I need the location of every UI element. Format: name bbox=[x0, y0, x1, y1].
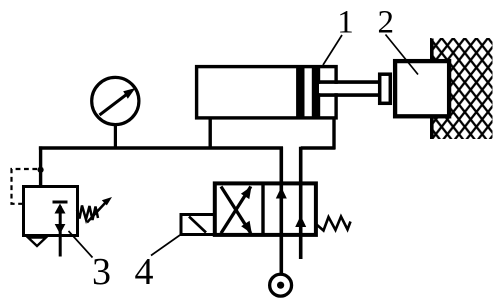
svg-text:2: 2 bbox=[378, 5, 395, 41]
svg-text:3: 3 bbox=[92, 251, 111, 293]
svg-text:4: 4 bbox=[135, 251, 154, 293]
svg-text:1: 1 bbox=[337, 5, 354, 41]
